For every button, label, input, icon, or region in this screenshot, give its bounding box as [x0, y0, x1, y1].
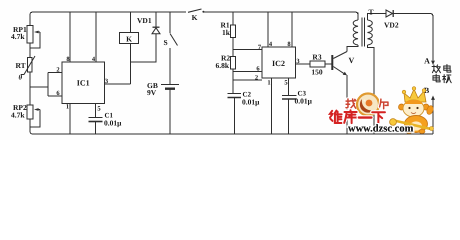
svg-text:2: 2	[56, 67, 59, 74]
svg-text:6.8k: 6.8k	[216, 61, 230, 70]
wire IC1 pin 5	[96, 104, 102, 118]
watermark row1: zhao + coin + pian	[346, 94, 388, 116]
wire bottom ground rail	[30, 131, 433, 134]
wire VD2 to electrode A	[393, 14, 433, 61]
wire IC2 pin 1 to ground	[267, 78, 271, 134]
svg-text:2: 2	[255, 75, 258, 82]
wire RP2 to ground rail	[29, 119, 31, 132]
wire top supply rail (right section)	[203, 12, 358, 20]
transformer T primary winding	[357, 13, 359, 21]
capacitor C1	[89, 112, 123, 135]
wire secondary bottom to ground	[368, 45, 375, 134]
wire IC1 pin 6	[48, 90, 62, 97]
wire IC2 pin 7	[233, 44, 262, 51]
svg-text:θ: θ	[19, 74, 23, 82]
wire IC2 pin 6	[233, 66, 262, 73]
wire IC2 pin 3 output	[296, 58, 311, 65]
potentiometer RP1	[11, 25, 40, 48]
svg-text:0.01μ: 0.01μ	[242, 98, 260, 107]
wire IC1 pin 2	[48, 67, 62, 74]
wire IC2 pin 2	[233, 75, 262, 82]
svg-text:R3: R3	[312, 53, 321, 62]
wire top rail corner into divider chain	[30, 12, 33, 26]
transistor V	[332, 52, 354, 135]
wire IC2 pin 8 to rail	[287, 12, 292, 48]
diode VD1	[131, 12, 161, 62]
svg-text:S: S	[164, 38, 168, 47]
wire IC1 pin 4 to rail	[92, 12, 96, 63]
svg-text:150: 150	[311, 68, 323, 77]
thermistor RT	[16, 56, 36, 82]
resistor R1	[221, 12, 236, 57]
transformer core	[362, 18, 365, 47]
potentiometer RP2	[11, 103, 40, 127]
relay contact K on top rail	[188, 9, 204, 22]
svg-text:IC1: IC1	[77, 79, 90, 88]
wire IC1 pin 8 to rail	[66, 12, 70, 63]
watermark mascot	[390, 87, 435, 134]
svg-text:V: V	[349, 56, 355, 65]
svg-text:K: K	[126, 35, 132, 44]
svg-text:0.01μ: 0.01μ	[104, 119, 122, 128]
wire IC2 pin 4 to rail	[268, 12, 273, 48]
svg-text:T: T	[368, 8, 373, 17]
wire RP1 to RT	[29, 43, 31, 58]
svg-text:A: A	[424, 57, 430, 66]
electrode A	[424, 57, 435, 66]
svg-text:RT: RT	[16, 61, 26, 70]
svg-text:0.01μ: 0.01μ	[295, 97, 313, 106]
svg-text:1: 1	[267, 80, 270, 87]
electrode B	[424, 86, 435, 134]
svg-text:4.7k: 4.7k	[11, 32, 25, 41]
wire pin2-pin6 bus	[47, 73, 49, 97]
svg-text:9V: 9V	[147, 88, 157, 97]
svg-text:www.dzsc.com: www.dzsc.com	[348, 124, 414, 135]
svg-text:1: 1	[66, 104, 69, 111]
svg-text:VD2: VD2	[384, 21, 399, 30]
diode VD2	[384, 10, 399, 30]
svg-text:IC2: IC2	[272, 59, 285, 68]
wire node tap to IC1 pins 2/6	[30, 86, 48, 88]
wire collector to transformer primary	[347, 45, 358, 52]
battery GB 9V	[147, 81, 179, 134]
wire IC1 pin 1 to ground	[66, 104, 70, 135]
transformer T secondary winding	[368, 20, 373, 45]
label discharge electrodes (fang dian / dian ji)	[432, 65, 451, 83]
resistor R2	[216, 54, 236, 94]
wire RT to RP2	[29, 72, 31, 105]
svg-text:K: K	[192, 13, 198, 22]
wire top supply rail (left section)	[33, 11, 186, 13]
resistor R3	[310, 53, 332, 77]
svg-text:1k: 1k	[222, 28, 231, 37]
svg-text:4.7k: 4.7k	[11, 111, 25, 120]
wire IC1 pin 3 output	[105, 78, 131, 85]
wire IC2 pin 5	[284, 78, 288, 96]
svg-text:VD1: VD1	[137, 16, 152, 25]
watermark row2: wei ku yi xia (red)	[330, 110, 385, 123]
capacitor C3	[282, 90, 313, 135]
capacitor C2	[228, 91, 261, 135]
op-amp/timer IC1	[62, 62, 105, 104]
switch S	[164, 12, 178, 85]
timer IC2	[262, 47, 296, 78]
relay coil K	[120, 12, 139, 84]
